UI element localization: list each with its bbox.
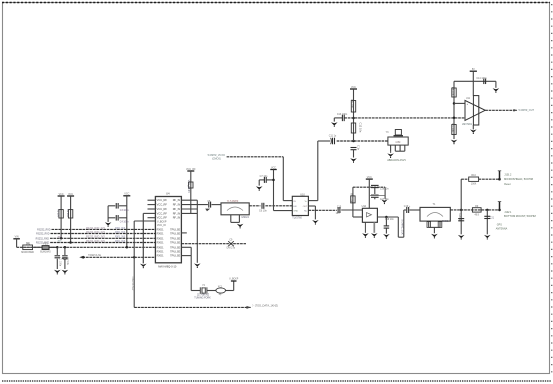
svg-text:V_BCKP: V_BCKP (157, 221, 167, 224)
svg-text:GPS: GPS (497, 224, 502, 227)
svg-text:MAX-M8Q-0-10: MAX-M8Q-0-10 (158, 264, 177, 268)
svg-text:100K: 100K (471, 184, 477, 186)
svg-text:R7 10K: R7 10K (451, 124, 455, 133)
svg-text:DNI 27p: DNI 27p (227, 247, 236, 249)
svg-text:ANTENNA: ANTENNA (496, 228, 508, 231)
svg-text:TPULSE: TPULSE (170, 232, 180, 236)
svg-text:R8 1.0K: R8 1.0K (350, 193, 354, 203)
svg-text:R10: R10 (471, 174, 476, 177)
svg-text:C15: C15 (337, 206, 342, 208)
svg-text:GND2: GND2 (442, 221, 449, 223)
svg-text:C21: C21 (490, 217, 495, 219)
svg-text:C7 10n: C7 10n (260, 175, 268, 178)
svg-text:C3 100n: C3 100n (120, 210, 129, 212)
svg-text:RS232_RXD_3V3: RS232_RXD_3V3 (86, 232, 105, 234)
svg-text:VCC_RF: VCC_RF (157, 198, 168, 202)
svg-text:MICROSHIELD, 50OHM: MICROSHIELD, 50OHM (504, 177, 533, 181)
svg-text:RXD1: RXD1 (157, 232, 164, 236)
svg-text:VCC_RF3V: VCC_RF3V (187, 180, 190, 193)
svg-text:GND24: GND24 (241, 217, 249, 219)
svg-text:Reset: Reset (504, 183, 511, 186)
svg-text:V_BCKP: V_BCKP (229, 279, 239, 281)
svg-text:VCC_RF: VCC_RF (157, 216, 168, 220)
svg-text:C19 +: C19 + (404, 205, 411, 208)
svg-text:5.0MHZ_CLK: 5.0MHZ_CLK (401, 220, 404, 235)
svg-text:RXD_3V3: RXD_3V3 (115, 241, 126, 243)
svg-text:C2 10u: C2 10u (66, 258, 68, 266)
svg-text:TPULSE: TPULSE (170, 241, 180, 245)
svg-text:EN: EN (294, 206, 297, 208)
svg-text:C18 10n: C18 10n (385, 219, 394, 221)
svg-text:5.0MHZ_OUT: 5.0MHZ_OUT (519, 109, 535, 112)
svg-text:RS232_RXD_3V3: RS232_RXD_3V3 (86, 241, 105, 243)
svg-text:TIMEPULSE2: TIMEPULSE2 (131, 276, 133, 291)
svg-text:5V: 5V (472, 68, 475, 71)
svg-text:U12: U12 (362, 205, 367, 208)
svg-text:BLM18AG: BLM18AG (40, 251, 51, 254)
svg-text:RXD1: RXD1 (157, 236, 164, 240)
svg-text:R1 10K: R1 10K (56, 209, 59, 217)
svg-text:OUT: OUT (303, 206, 308, 208)
svg-text:TPULSE: TPULSE (170, 249, 180, 253)
svg-text:C1 100n: C1 100n (59, 258, 61, 267)
svg-text:RF_IN: RF_IN (173, 198, 181, 202)
svg-text:RXD_3V3: RXD_3V3 (115, 232, 126, 234)
svg-text:C17 10n: C17 10n (380, 199, 389, 201)
svg-text:R2 10K: R2 10K (66, 209, 69, 217)
svg-text:(CMOS): (CMOS) (212, 157, 221, 160)
svg-text:C12 10n: C12 10n (359, 123, 363, 133)
svg-text:NC: NC (304, 211, 308, 213)
svg-text:RXD_3V3: RXD_3V3 (115, 228, 126, 230)
svg-text:FB1: FB1 (43, 242, 48, 245)
svg-text:R5 10K: R5 10K (350, 100, 354, 109)
svg-text:TUNING FORK: TUNING FORK (194, 296, 211, 299)
svg-text:ABRACON ASVV: ABRACON ASVV (387, 159, 406, 162)
svg-text:VCC_RF: VCC_RF (157, 203, 168, 207)
svg-text:RF_IN: RF_IN (173, 207, 181, 211)
svg-text:RXD1: RXD1 (157, 227, 164, 231)
svg-text:49.9: 49.9 (474, 214, 479, 216)
svg-text:TPULSE: TPULSE (170, 227, 180, 231)
svg-text:LMV7219: LMV7219 (462, 124, 473, 126)
svg-text:U10: U10 (300, 194, 305, 197)
svg-text:C14 100n: C14 100n (476, 77, 487, 80)
svg-text:TIMEPULSE: TIMEPULSE (88, 255, 101, 257)
svg-text:MICROSMD: MICROSMD (21, 252, 34, 254)
svg-text:C20 1u: C20 1u (458, 214, 461, 223)
svg-text:VCC: VCC (367, 176, 372, 179)
svg-text:RXD1: RXD1 (157, 249, 164, 253)
svg-text:C6 10n: C6 10n (259, 209, 267, 212)
svg-text:RXD1: RXD1 (157, 254, 164, 258)
svg-text:BOTTOM MOUNT, 50OHM: BOTTOM MOUNT, 50OHM (504, 214, 536, 218)
svg-text:U4: U4 (166, 192, 170, 196)
svg-text:VCC: VCC (68, 193, 73, 196)
svg-text:Y1 5.0MHZ: Y1 5.0MHZ (227, 201, 239, 203)
svg-text:TPULSE: TPULSE (170, 236, 180, 240)
svg-text:VCC: VCC (351, 86, 356, 89)
svg-text:RF_IN: RF_IN (173, 203, 181, 207)
svg-text:VCC: VCC (124, 193, 129, 196)
svg-text:C11 1u: C11 1u (329, 135, 337, 138)
svg-text:C4 100n: C4 100n (120, 222, 129, 224)
svg-text:RS232_RXD_3V3: RS232_RXD_3V3 (86, 228, 105, 230)
svg-text:RS232_RXD_3V3: RS232_RXD_3V3 (86, 237, 105, 239)
svg-text:J101 ​2: J101 ​2 (504, 174, 512, 177)
svg-text:XC1: XC1 (218, 287, 223, 289)
svg-text:J102 1: J102 1 (504, 211, 512, 214)
svg-text:RXD1: RXD1 (157, 241, 164, 245)
svg-text:C13 100n: C13 100n (337, 113, 348, 116)
svg-text:〉(TOD_DATA_1KHZ): 〉(TOD_DATA_1KHZ) (252, 304, 278, 308)
svg-text:VCC_RF: VCC_RF (157, 211, 168, 215)
svg-text:RF_IN: RF_IN (173, 216, 181, 220)
svg-text:VCC_RF: VCC_RF (157, 207, 168, 211)
svg-text:RF_IN: RF_IN (173, 211, 181, 215)
svg-text:TLV2760: TLV2760 (292, 217, 302, 220)
svg-text:VIN: VIN (15, 236, 19, 239)
svg-text:RXD_3V3: RXD_3V3 (115, 237, 126, 239)
svg-text:RS232_RXD: RS232_RXD (36, 234, 50, 236)
svg-text:VCC: VCC (59, 193, 64, 196)
svg-text:TPULSE: TPULSE (170, 254, 180, 258)
svg-text:4.0M: 4.0M (395, 142, 400, 144)
svg-text:VCC: VCC (271, 166, 276, 169)
svg-text:R6 10K: R6 10K (451, 87, 455, 96)
svg-text:RS232_RXD: RS232_RXD (37, 229, 51, 231)
svg-text:RS232_RXD: RS232_RXD (36, 238, 50, 240)
svg-text:VCC_IO: VCC_IO (157, 224, 166, 227)
svg-text:VCC_RF: VCC_RF (186, 168, 196, 171)
svg-text:RXD1: RXD1 (157, 245, 164, 249)
svg-text:C 1n: C 1n (357, 145, 360, 151)
svg-text:GND: GND (294, 211, 299, 213)
svg-text:TPULSE: TPULSE (170, 245, 180, 249)
